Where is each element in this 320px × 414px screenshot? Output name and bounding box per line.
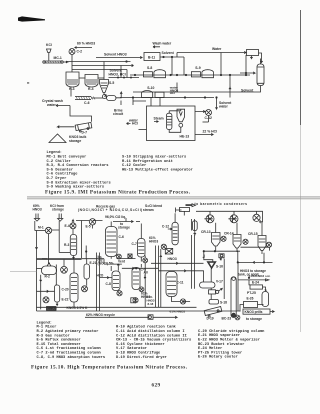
svg-text:S-5: S-5 [109, 81, 114, 85]
wire CR-14 bottoms [237, 251, 239, 263]
svg-text:V-17: V-17 [216, 280, 223, 284]
pump right of C-9 [139, 287, 144, 292]
legend figure 15.9 [47, 150, 193, 189]
svg-text:Legend:: Legend: [47, 150, 63, 155]
wire feed to R-2 [37, 268, 42, 270]
wire HNO3 down [34, 221, 36, 231]
wire column bottom solvent return [133, 86, 261, 93]
svg-text:E-5: E-5 [86, 225, 91, 229]
svg-text:S-10: S-10 [147, 86, 154, 90]
svg-text:E-24 Melter: E-24 Melter [198, 346, 222, 351]
wire wash water [56, 104, 70, 106]
column C-? right [257, 64, 264, 86]
svg-text:HNO3: HNO3 [33, 208, 42, 212]
svg-text:R-2 Agitated primary reactor: R-2 Agitated primary reactor [37, 329, 99, 334]
pump between 2 [243, 239, 248, 244]
svg-text:KNO3 prills: KNO3 prills [245, 310, 263, 314]
fractionating column C-7 [138, 239, 146, 258]
wire R4 to S5 [98, 77, 104, 79]
svg-text:S-8: S-8 [147, 66, 152, 70]
small box below C-9 [131, 298, 136, 303]
exchanger E-16 box [165, 248, 172, 254]
misc connecting wires [42, 234, 49, 264]
wire into HE13 [133, 98, 146, 106]
svg-text:PT-25 Prilling tower: PT-25 Prilling tower [198, 350, 242, 355]
svg-text:S-16 Cyclone thickener: S-16 Cyclone thickener [116, 342, 165, 347]
svg-text:Water: Water [212, 47, 222, 51]
main extraction line [130, 74, 250, 76]
svg-text:C-6 Centrifuge: C-6 Centrifuge [47, 172, 79, 177]
legend figure 15.10 [37, 320, 265, 359]
bucket elevator BC-23 [231, 277, 236, 318]
gas reactor R-3 [70, 235, 76, 256]
pump on Cl2 line [117, 254, 122, 259]
wires crystallizer train [216, 247, 262, 255]
cooler C-12 [206, 110, 212, 116]
pen mark top-left [18, 16, 45, 21]
svg-text:Air: Air [144, 271, 149, 275]
vaporizer column E-21b [84, 264, 89, 279]
S10 line [120, 97, 214, 99]
svg-text:C-12: C-12 [162, 224, 169, 228]
chiller C-2 [69, 49, 75, 55]
svg-text:H2O: H2O [97, 273, 104, 277]
svg-text:HNO3: HNO3 [149, 240, 158, 244]
wire E-4 vent arrow [72, 220, 74, 223]
svg-text:C-12 Cooler: C-12 Cooler [122, 163, 146, 168]
svg-text:R-2: R-2 [45, 275, 50, 279]
svg-text:C-7: C-7 [132, 242, 137, 246]
svg-text:S-9: S-9 [195, 66, 200, 70]
centrifuge C-6 [75, 96, 91, 98]
separator band [27, 196, 320, 198]
svg-text:C-20 Chloride stripping column: C-20 Chloride stripping column [198, 329, 264, 334]
wire pump station to S-18 [223, 259, 226, 299]
wire R3-R4 [79, 77, 85, 79]
svg-text:C-20: C-20 [62, 288, 69, 292]
wire R-2 down [40, 275, 42, 310]
exchanger square on Cl2 line [128, 254, 132, 258]
wire to B-11 [96, 56, 142, 58]
wire KCl down to M-1 [52, 221, 60, 231]
svg-text:HCl: HCl [132, 122, 138, 126]
wire vacuum header [196, 211, 263, 223]
wire slurry line B [159, 270, 204, 282]
svg-text:l) stream: l) stream [140, 208, 154, 212]
pump bottom left [43, 297, 49, 303]
svg-text:KCl: KCl [46, 43, 52, 47]
svg-text:storage: storage [52, 208, 64, 212]
wire HNO3 product [237, 262, 239, 311]
svg-text:M-1: M-1 [38, 226, 44, 230]
svg-text:storage: storage [69, 139, 81, 143]
svg-text:E-4: E-4 [65, 224, 70, 228]
wire faint left [10, 270, 37, 272]
svg-text:62% HNO3 recycle: 62% HNO3 recycle [86, 313, 115, 317]
svg-text:KNO3 2.5% K: KNO3 2.5% K [67, 306, 89, 310]
absorption tower C-9 [132, 268, 140, 290]
pump below C-11 [180, 299, 185, 304]
condenser E-15 [161, 244, 166, 249]
svg-text:C-11 Acid distillation column: C-11 Acid distillation column I [116, 329, 185, 334]
scan border right [300, 10, 302, 125]
svg-text:Figure 15.10. High Temperature: Figure 15.10. High Temperature Potassium… [31, 364, 188, 370]
wire R-3 bottom drop [70, 87, 72, 96]
svg-text:HNO3: HNO3 [168, 257, 177, 261]
wire acid recycle down [160, 249, 162, 307]
svg-text:BC-23: BC-23 [222, 317, 232, 321]
wire R-3 bottom [73, 256, 75, 259]
svg-text:C-8: C-8 [106, 282, 111, 286]
ejector 1 [206, 215, 214, 223]
svg-text:to barometric condensers: to barometric condensers [195, 202, 248, 206]
BC-23 top pulley [232, 277, 235, 280]
svg-text:Figure 15.9. IMI Potassium Nit: Figure 15.9. IMI Potassium Nitrate Produ… [45, 190, 191, 196]
svg-text:R-3, R-4 Conversion reactors: R-3, R-4 Conversion reactors [47, 163, 109, 168]
chloride stripper E-20 [192, 221, 197, 231]
pump right of CR-15 [266, 242, 271, 247]
svg-text:D-19: D-19 [207, 317, 214, 321]
absorption tower C-8 [112, 271, 120, 291]
svg-text:C-8, C-9 HNO3 absorption tower: C-8, C-9 HNO3 absorption towers [37, 355, 106, 360]
feed arrow KCl [58, 214, 63, 222]
wire crystallizer discharge header [204, 251, 240, 262]
wire S5 top up [103, 62, 105, 80]
ejector 3 [253, 214, 260, 221]
svg-text:B-11: B-11 [148, 56, 155, 60]
primary reactor R-2 [42, 266, 57, 275]
svg-text:C-12 Acid distillation column: C-12 Acid distillation column II [116, 333, 187, 338]
svg-text:E-22 HNO3 Melter & vaporizer: E-22 HNO3 Melter & vaporizer [198, 338, 260, 343]
svg-text:circuit: circuit [113, 112, 124, 116]
svg-text:E-26 Rotary cooler: E-26 Rotary cooler [198, 355, 238, 360]
svg-text:HE-13: HE-13 [180, 135, 190, 139]
wire C-2 to R-3 [71, 55, 73, 73]
svg-text:E-22: E-22 [62, 298, 69, 302]
wire D7 to pile [58, 126, 75, 128]
svg-text:to storage: to storage [246, 317, 262, 321]
svg-text:629: 629 [152, 382, 161, 388]
feed arrow HNO3 [34, 214, 39, 222]
svg-text:61% HNO3: 61% HNO3 [170, 310, 186, 314]
svg-text:R-3: R-3 [69, 87, 75, 91]
pump between [221, 236, 226, 241]
wire main left pipe [35, 231, 37, 312]
label HNO3 box [47, 307, 57, 311]
svg-text:D-7: D-7 [82, 131, 88, 135]
svg-text:S-18 KNO3 Centrifuge: S-18 KNO3 Centrifuge [116, 351, 161, 356]
svg-text:CR-15: CR-15 [248, 232, 258, 236]
wire HNO3 to C-2 [75, 47, 92, 49]
svg-text:C-6 1-st fractionating column: C-6 1-st fractionating column [37, 346, 101, 351]
svg-text:M-1 Mixer: M-1 Mixer [37, 325, 57, 330]
pump station box [219, 254, 224, 258]
svg-text:BC-23 Bucket elevator: BC-23 Bucket elevator [198, 342, 244, 347]
label KNO3 prills [243, 309, 270, 314]
svg-text:E-24: E-24 [252, 281, 259, 285]
svg-text:22 % HCl: 22 % HCl [203, 130, 218, 134]
svg-text:storage: storage [118, 226, 130, 230]
svg-text:C-2: C-2 [77, 50, 83, 54]
double pipe risers [192, 219, 195, 289]
BC-23 bottom pulley [232, 313, 236, 317]
wire C6 down to D7 [70, 106, 92, 122]
reactor R-3 [66, 72, 79, 87]
wire CR-15 bottoms [263, 253, 265, 263]
wire M-1 to R-3 [58, 231, 60, 253]
svg-text:S-18: S-18 [220, 301, 227, 305]
saturator V-17 [200, 282, 216, 288]
svg-text:CR-13: CR-13 [201, 230, 211, 234]
chloride column C-20 [70, 273, 78, 302]
svg-text:water: water [46, 103, 57, 107]
pump below S-5 [103, 95, 107, 99]
svg-text:E-21: E-21 [90, 261, 97, 265]
wire up arrow S-9 return [229, 88, 231, 90]
svg-text:MC-1: MC-1 [54, 56, 62, 60]
svg-text:Steam: Steam [154, 117, 164, 121]
svg-text:S-16: S-16 [216, 265, 223, 269]
pump bottom right [235, 315, 240, 320]
svg-text:R-3: R-3 [64, 243, 69, 247]
svg-text:R-10 Agitated reaction tank: R-10 Agitated reaction tank [116, 325, 177, 330]
svg-text:(NOCl,NO2Cl + N2O4,Cl2,S=Cl: (NOCl,NO2Cl + N2O4,Cl2,S=Cl [78, 208, 139, 212]
svg-text:(NOCl) 5%: (NOCl) 5% [98, 262, 114, 266]
wire HNO3 collection line [238, 261, 273, 263]
belt conveyor MC-1 [44, 60, 62, 62]
svg-text:S-8 Extraction mixer-settlers: S-8 Extraction mixer-settlers [47, 180, 111, 185]
svg-text:HCl: HCl [170, 91, 175, 95]
wire slurry line A [151, 262, 204, 264]
svg-text:D-19 Direct-fired dryer: D-19 Direct-fired dryer [116, 355, 167, 360]
KNO3 pile [49, 134, 66, 143]
wire belt to R-3 [64, 61, 68, 63]
svg-text:C-6: C-6 [119, 235, 124, 239]
svg-text:E-26: E-26 [247, 296, 254, 300]
svg-text:C-6: C-6 [84, 101, 90, 105]
unit R-11 box [247, 50, 259, 56]
svg-text:HE-13 Multiple-effect evaporat: HE-13 Multiple-effect evaporator [122, 167, 193, 172]
dryer D-19 [204, 307, 222, 318]
brine oval wires [115, 92, 122, 98]
wire main cross line [37, 258, 105, 260]
wire recycle gas down [81, 221, 83, 259]
reactor R-4 [85, 75, 98, 88]
svg-text:PT-25: PT-25 [247, 291, 256, 295]
cyclone S-16 [207, 262, 216, 269]
svg-text:Wash water: Wash water [153, 42, 172, 46]
ejector 2 [230, 215, 238, 223]
wire E-21 vessel stubs [86, 259, 88, 286]
vaporizer E-21 circle [61, 266, 68, 273]
wire circulation loop [241, 247, 270, 250]
HE-13 box [147, 106, 196, 141]
wire hopper to belt [48, 53, 50, 61]
separator [177, 109, 185, 122]
svg-text:water: water [218, 105, 229, 109]
KCl hopper [47, 49, 52, 53]
wire C-7 bottoms down [144, 256, 146, 308]
svg-text:S-10 Stripping mixer-settlers: S-10 Stripping mixer-settlers [122, 155, 186, 160]
wire B11 right [160, 56, 184, 58]
wire S5 bottom to C-6 [91, 97, 103, 99]
svg-text:C-2 Chiller: C-2 Chiller [47, 159, 71, 164]
acid column C-11 [166, 272, 177, 297]
melter column E-22 [55, 285, 60, 302]
centrifuge S-18 [209, 300, 219, 305]
left margin dash [27, 82, 29, 84]
svg-text:R-11 Refrigeration unit: R-11 Refrigeration unit [122, 159, 173, 164]
svg-text:E-21 HNO3 vaporizer: E-21 HNO3 vaporizer [198, 333, 240, 338]
label to barometric condensers [186, 204, 196, 207]
tank B-11 [144, 53, 160, 61]
svg-text:96,0% Cl2 liq.: 96,0% Cl2 liq. [105, 215, 126, 219]
oval unit [107, 96, 117, 101]
svg-text:61% KNO3 sol.: 61% KNO3 sol. [249, 274, 271, 278]
pump below C-7 [143, 258, 148, 263]
wire belt line right [66, 61, 131, 63]
wire water to R-11 [177, 51, 246, 53]
svg-text:CR-14: CR-14 [224, 232, 234, 236]
svg-text:Solvent HNO3: Solvent HNO3 [104, 53, 127, 57]
wires bottom distribution [37, 310, 241, 312]
svg-text:E-5 Reflux condenser: E-5 Reflux condenser [37, 338, 81, 343]
brine lines [72, 64, 134, 66]
svg-text:CR-13 - CR-15 Vacuum crystalli: CR-13 - CR-15 Vacuum crystallizers [116, 338, 191, 343]
svg-text:60 % HNO3: 60 % HNO3 [77, 42, 95, 46]
svg-text:E-15 Total condenser: E-15 Total condenser [37, 342, 81, 347]
svg-text:8-18: 8-18 [148, 302, 154, 306]
svg-text:C-7 2-nd fractionating column: C-7 2-nd fractionating column [37, 351, 101, 356]
svg-text:Solvent: Solvent [162, 51, 175, 55]
svg-text:C-11: C-11 [177, 281, 184, 285]
svg-text:Vent: Vent [118, 260, 126, 264]
svg-text:R-4: R-4 [88, 87, 94, 91]
svg-text:HNO3, HCl: HNO3, HCl [109, 73, 126, 77]
fractionating column C-6 [106, 227, 118, 257]
svg-text:MC-1 Belt conveyor: MC-1 Belt conveyor [47, 155, 87, 160]
wire R-3 side pipe [85, 246, 87, 259]
decanter S-5 [100, 80, 109, 93]
svg-text:Legend:: Legend: [37, 320, 53, 325]
evaporator tube [167, 113, 172, 129]
wire corner stub [203, 255, 205, 258]
dryer D-7 [75, 122, 92, 132]
